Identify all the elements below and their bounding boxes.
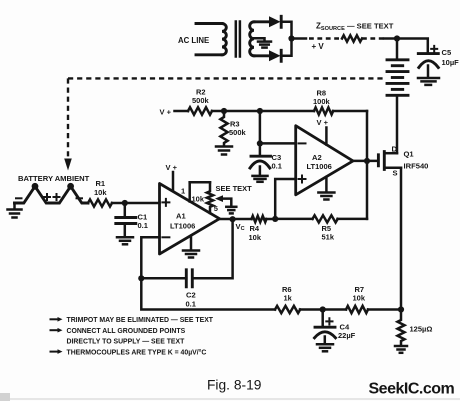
svg-text:SEE TEXT: SEE TEXT bbox=[216, 184, 253, 193]
node C4 bbox=[320, 306, 326, 312]
svg-text:S: S bbox=[393, 169, 398, 178]
resistor 125uOhm vertical bbox=[398, 310, 405, 346]
ground under A2 bbox=[318, 193, 334, 200]
capacitor C2 bbox=[186, 270, 192, 287]
svg-text:22µF: 22µF bbox=[338, 331, 356, 340]
svg-text:TRIMPOT MAY BE ELIMINATED — SE: TRIMPOT MAY BE ELIMINATED — SEE TEXT bbox=[67, 317, 214, 324]
svg-text:DIRECTLY TO SUPPLY — SEE TEXT: DIRECTLY TO SUPPLY — SEE TEXT bbox=[67, 339, 186, 346]
wire node D up to A2 noninverting bbox=[275, 179, 296, 219]
wire A2 output column (R8 to R5) bbox=[366, 111, 369, 219]
diode D2 bottom bbox=[269, 50, 281, 61]
note arrow 2 bbox=[51, 329, 59, 331]
dashed feedback path vertical bbox=[67, 78, 69, 157]
svg-text:51k: 51k bbox=[322, 233, 335, 242]
wire R7 to source node bbox=[368, 308, 401, 311]
wire node D to R5 bbox=[275, 218, 312, 221]
trimpot top wire bbox=[190, 181, 210, 184]
wire down to bottom rail bbox=[141, 278, 275, 309]
resistor R4 bbox=[252, 216, 267, 222]
svg-text:SeekIC.com: SeekIC.com bbox=[369, 381, 455, 398]
ground under C4 bbox=[317, 344, 333, 351]
op-amp A1 bbox=[160, 184, 220, 255]
svg-text:Q1: Q1 bbox=[404, 150, 415, 159]
svg-text:5: 5 bbox=[214, 204, 218, 213]
svg-text:C5: C5 bbox=[442, 48, 452, 57]
svg-text:10k: 10k bbox=[249, 233, 262, 242]
capacitor C3 bbox=[250, 143, 271, 175]
wire dashed from Zsource bbox=[362, 37, 385, 39]
transistor Q1 bbox=[378, 152, 401, 170]
wire battery top lead bbox=[396, 39, 399, 60]
capacitor C4 bbox=[315, 310, 336, 345]
svg-text:CONNECT ALL GROUNDED POINTS: CONNECT ALL GROUNDED POINTS bbox=[67, 328, 186, 335]
ground under C5 bbox=[418, 78, 439, 85]
wire node B to R8 bbox=[260, 110, 314, 113]
svg-text:VC: VC bbox=[236, 222, 245, 232]
svg-text:10k: 10k bbox=[192, 195, 205, 204]
wire R8 to A2 output column bbox=[333, 110, 367, 113]
center tap wire bbox=[254, 38, 265, 41]
A2 ground lead bbox=[325, 177, 328, 192]
svg-text:500k: 500k bbox=[192, 96, 210, 105]
ground under C3 bbox=[253, 176, 268, 182]
svg-text:IRF540: IRF540 bbox=[404, 162, 429, 171]
node source/sense bbox=[398, 306, 404, 312]
resistor R3 vertical bbox=[220, 111, 227, 146]
capacitor C5 bbox=[418, 46, 438, 77]
node C (C3 / A2 inverting) bbox=[257, 140, 263, 146]
resistor Zsource bbox=[342, 35, 362, 41]
ground under R3 bbox=[216, 147, 232, 155]
wire dashed to Zsource bbox=[292, 37, 307, 40]
node D (R4/R5/A2+) bbox=[272, 216, 278, 222]
center tap ground bbox=[258, 42, 271, 48]
svg-text:Fig. 8-19: Fig. 8-19 bbox=[207, 378, 262, 393]
svg-text:10k: 10k bbox=[353, 294, 366, 303]
wire R4 to node D bbox=[264, 218, 275, 221]
pin 1 lead bbox=[188, 182, 191, 201]
wire A1 inverting to feedback column bbox=[141, 237, 159, 278]
wire C2 to left node bbox=[141, 277, 186, 280]
svg-text:500k: 500k bbox=[229, 128, 247, 137]
battery B1 bbox=[387, 60, 408, 96]
svg-text:0.1: 0.1 bbox=[272, 162, 282, 171]
resistor R2 bbox=[188, 107, 212, 114]
svg-text:THERMOCOUPLES ARE TYPE K = 40µ: THERMOCOUPLES ARE TYPE K = 40µV/°C bbox=[67, 349, 207, 357]
svg-text:V +: V + bbox=[317, 118, 329, 127]
svg-text:10k: 10k bbox=[94, 188, 107, 197]
scan artifact corner blob bbox=[0, 393, 10, 401]
trimpot wiper arrow bbox=[215, 195, 231, 206]
wire R2 to node A bbox=[212, 110, 260, 113]
ground under 125uOhm bbox=[395, 346, 407, 353]
svg-text:R1: R1 bbox=[96, 179, 106, 188]
note arrow 1 bbox=[51, 318, 59, 320]
svg-text:125µΩ: 125µΩ bbox=[410, 325, 433, 334]
node battery top bbox=[394, 35, 400, 41]
svg-text:R4: R4 bbox=[250, 224, 260, 233]
wire node B down to C3 node bbox=[259, 111, 262, 143]
transformer core bbox=[236, 22, 240, 57]
svg-text:0.1: 0.1 bbox=[138, 221, 148, 230]
wire A1 output to R4 bbox=[220, 218, 252, 221]
thermocouple pair bbox=[15, 186, 89, 203]
diode D1 top bbox=[269, 16, 281, 27]
svg-text:100k: 100k bbox=[313, 97, 331, 106]
svg-text:V +: V + bbox=[160, 107, 172, 116]
node A (R2/R3) bbox=[221, 108, 227, 114]
svg-text:0.1: 0.1 bbox=[186, 299, 196, 308]
ground trimpot wiper bbox=[226, 207, 236, 214]
svg-text:LT1006: LT1006 bbox=[170, 222, 195, 231]
ground under A1 bbox=[183, 251, 199, 258]
resistor R6 bbox=[275, 306, 300, 313]
wire source down to node bbox=[400, 168, 403, 310]
scan artifact bottom line bbox=[0, 398, 460, 400]
svg-text:A2: A2 bbox=[312, 153, 322, 162]
wire A2 output to gate bbox=[353, 160, 377, 163]
trimpot 10k vertical resistor bbox=[207, 182, 213, 213]
svg-text:+ V: + V bbox=[312, 42, 325, 51]
wire battery bottom to drain bbox=[396, 96, 399, 153]
svg-text:D: D bbox=[392, 144, 398, 153]
wire C1 node to A1 noninverting bbox=[125, 202, 160, 205]
svg-text:A1: A1 bbox=[176, 212, 186, 221]
thermocouple junction dot 1 bbox=[32, 183, 39, 190]
rectifier output bus bbox=[281, 22, 291, 56]
dashed arrow head bbox=[64, 159, 72, 171]
dashed feedback path horizontal bbox=[68, 77, 387, 79]
wire V+ to R2 bbox=[175, 110, 189, 113]
svg-text:LT1006: LT1006 bbox=[307, 162, 332, 171]
A1 ground lead bbox=[190, 237, 193, 251]
svg-text:AC LINE: AC LINE bbox=[178, 36, 209, 45]
resistor R5 bbox=[313, 215, 338, 222]
op-amp A2 bbox=[296, 126, 353, 195]
svg-text:ZSOURCE — SEE TEXT: ZSOURCE — SEE TEXT bbox=[316, 22, 394, 33]
node B (R8 left / C3 branch) bbox=[257, 108, 263, 114]
svg-text:10µF: 10µF bbox=[442, 58, 460, 67]
polarity marks bbox=[16, 194, 82, 200]
A1 V+ lead bbox=[172, 172, 175, 191]
wire R6 to C4 node bbox=[300, 308, 346, 311]
svg-text:C2: C2 bbox=[186, 291, 196, 300]
node A2 output bbox=[364, 158, 370, 164]
note arrow 4 bbox=[51, 351, 59, 353]
A2 V+ lead bbox=[325, 128, 328, 145]
thermocouple junction dot 2 bbox=[67, 183, 74, 190]
svg-text:V +: V + bbox=[166, 163, 178, 172]
node C2 left bbox=[138, 275, 144, 281]
transformer T1 secondary bbox=[250, 22, 269, 56]
capacitor C1 bbox=[116, 203, 136, 237]
node C1 bbox=[122, 200, 128, 206]
wire R1 to C1 node bbox=[112, 202, 125, 205]
left thermocouple ground bbox=[8, 203, 22, 218]
svg-text:1k: 1k bbox=[284, 294, 293, 303]
wire R5 right bbox=[338, 218, 368, 221]
wire node C to A2 inverting input bbox=[260, 142, 296, 145]
wire to C5 bbox=[397, 39, 428, 53]
resistor R7 bbox=[346, 306, 368, 313]
resistor R1 bbox=[88, 199, 112, 206]
node Vc bbox=[230, 216, 236, 222]
node rectifier output bbox=[288, 35, 294, 41]
svg-text:1: 1 bbox=[181, 186, 185, 195]
transformer T1 primary bbox=[196, 24, 226, 55]
svg-text:BATTERY AMBIENT: BATTERY AMBIENT bbox=[18, 174, 90, 183]
ground under C1 bbox=[117, 237, 133, 244]
resistor R8 bbox=[314, 107, 333, 114]
wire Vc down to C2 bbox=[193, 219, 233, 278]
